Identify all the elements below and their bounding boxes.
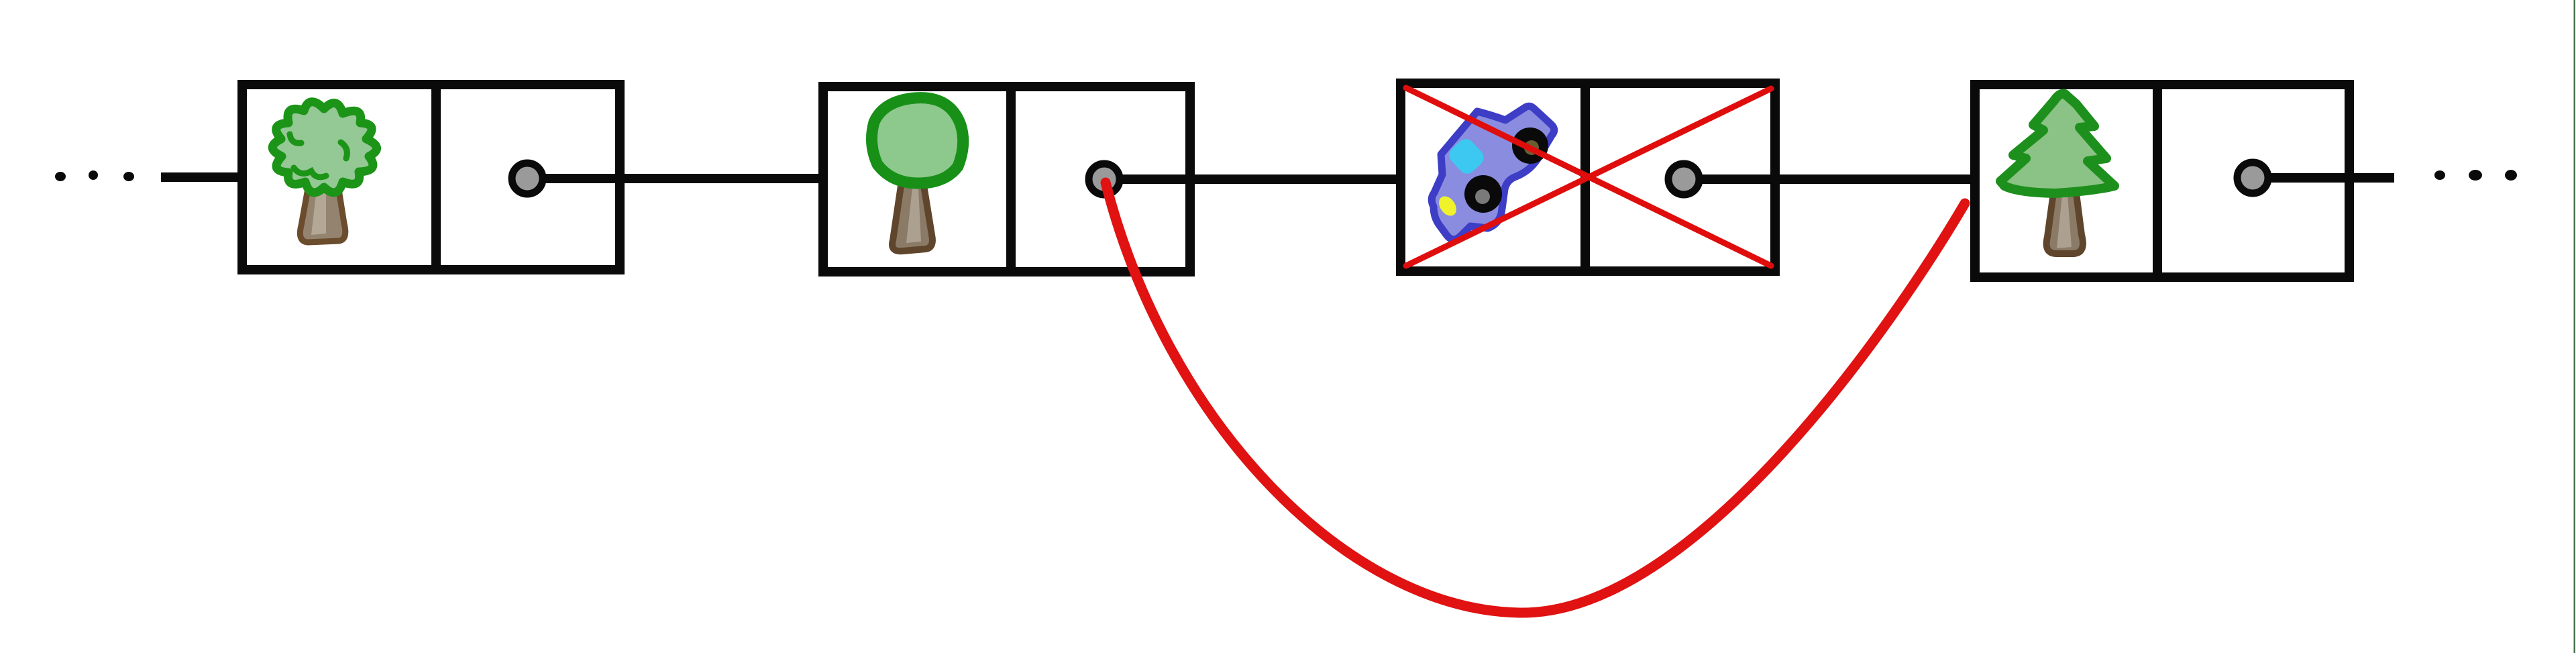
node 4 data: pine tree bbox=[2000, 94, 2114, 193]
node 3 divider bbox=[1580, 83, 1590, 271]
car window bbox=[1446, 136, 1487, 177]
faint gray frame line at right edge bbox=[2574, 0, 2576, 653]
node 2 box bbox=[823, 87, 1190, 272]
car front wheel bbox=[1464, 175, 1502, 213]
node 1 divider bbox=[431, 85, 441, 270]
left ellipsis dots bbox=[55, 170, 134, 181]
node 1 trunk bbox=[300, 181, 345, 242]
node 3 pointer dot bbox=[1668, 164, 1699, 195]
car body bbox=[1432, 106, 1554, 240]
node 2 pointer dot bbox=[1089, 164, 1120, 195]
red X over node 3 (stroke 2) bbox=[1406, 89, 1771, 266]
wire into node 1 bbox=[161, 172, 245, 182]
wire node 3 -> node 4 bbox=[1701, 174, 1978, 184]
node 3 data: blue car (tilted) bbox=[1432, 106, 1554, 240]
node 1 pointer dot bbox=[512, 163, 543, 194]
node 4 box bbox=[1975, 85, 2349, 277]
node 2 data: round tree crown bbox=[871, 98, 963, 183]
node 2 trunk bbox=[892, 181, 932, 251]
node 3 box bbox=[1401, 83, 1775, 271]
node 4 trunk bbox=[2047, 188, 2083, 254]
red X over node 3 (stroke 1) bbox=[1406, 88, 1771, 266]
wire node 1 -> node 2 bbox=[545, 174, 826, 183]
red bypass curve: node 2 pointer to node 4 bbox=[1106, 183, 1965, 613]
node 2 divider bbox=[1006, 87, 1016, 272]
wire node 2 -> node 3 bbox=[1122, 174, 1403, 184]
car headlight bbox=[1436, 193, 1460, 219]
car rear wheel bbox=[1512, 128, 1548, 164]
node 4 pointer dot bbox=[2237, 162, 2268, 193]
node 1 box bbox=[242, 85, 620, 270]
wire node 4 -> right bbox=[2270, 173, 2394, 183]
node 4 divider bbox=[2153, 85, 2162, 277]
right ellipsis dots bbox=[2434, 170, 2517, 181]
node 1 data: bushy oak tree crown bbox=[272, 102, 376, 193]
